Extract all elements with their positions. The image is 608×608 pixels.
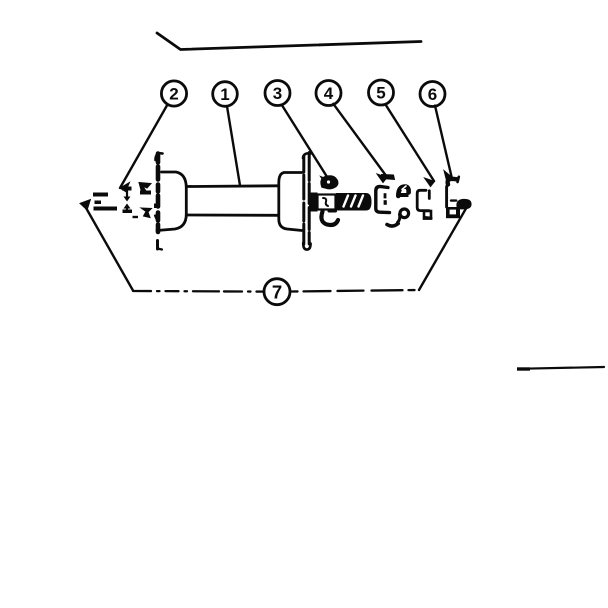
top border polyline [157, 33, 421, 50]
svg-text:6: 6 [428, 85, 437, 104]
assembly bracket 7: left dash-dot line [133, 290, 263, 293]
svg-text:2: 2 [169, 85, 178, 104]
svg-text:4: 4 [324, 84, 334, 103]
left hub dome [157, 172, 186, 231]
svg-text:7: 7 [272, 282, 282, 303]
axle middle sleeve [318, 195, 336, 210]
svg-text:3: 3 [273, 84, 282, 103]
axle threaded end [336, 193, 372, 211]
leader line 1 [227, 106, 240, 185]
callout circle 1 [213, 82, 238, 107]
part 5 washer [417, 190, 431, 218]
callout circle 3 [265, 81, 290, 106]
assembly bracket 7: right diagonal with curled arrowhead [419, 200, 471, 290]
part 2 small spindle (dashed cylinder) [93, 193, 117, 211]
part 4 adjusting nut [376, 175, 409, 227]
svg-text:1: 1 [220, 85, 229, 104]
part 6 locknut [446, 177, 460, 218]
right hub flange bar [303, 153, 311, 250]
right hub dome [279, 173, 302, 231]
callout circle 6 [420, 82, 445, 107]
callout circle 2 [161, 81, 186, 106]
stray rule line at right [517, 367, 604, 371]
leader line 4 [333, 104, 387, 183]
axle step washer [309, 193, 318, 212]
part 3 cone (lower half) [321, 211, 338, 225]
callout circle 5 [369, 80, 394, 105]
svg-text:5: 5 [376, 84, 385, 103]
axle shaft [187, 186, 279, 216]
leader line 2 [120, 105, 168, 192]
ref circle 7 [264, 279, 290, 305]
left hub flange bar [156, 153, 163, 249]
leader line 6 [435, 106, 452, 181]
leader line 5 [385, 104, 434, 186]
small arrow marks beside part 2 [122, 187, 132, 214]
leader line 3 [282, 105, 329, 184]
small fastener blobs by hub flange [133, 183, 159, 223]
assembly bracket 7: right dashed line [292, 290, 420, 292]
assembly bracket 7: left arrowhead [81, 200, 134, 291]
callout circle 4 [316, 81, 341, 106]
part 3 cone (upper half) [321, 176, 338, 189]
